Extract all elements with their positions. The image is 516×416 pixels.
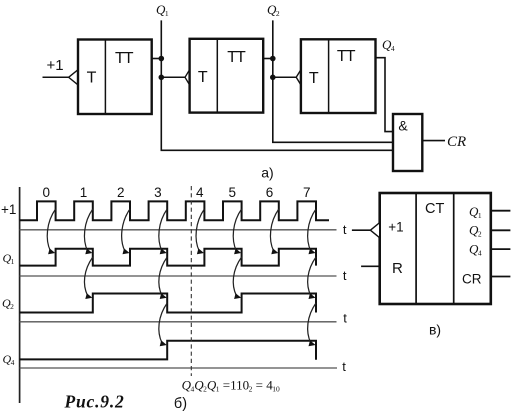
svg-text:в): в) xyxy=(429,321,441,337)
arrow clock pulse 5 falling edge to Q1 toggle xyxy=(233,209,241,254)
arrow clock pulse 0 falling edge to Q1 toggle xyxy=(47,209,55,254)
arrow Q2 falling edge to Q4 toggle at pulse 3 xyxy=(159,303,167,346)
T flip-flop FF1 divider xyxy=(104,40,106,115)
svg-text:t: t xyxy=(343,268,347,283)
svg-text:CR: CR xyxy=(447,134,466,150)
Q2 waveform xyxy=(20,294,316,313)
wire FF2 output to Q2 net xyxy=(263,58,273,60)
svg-text:+1: +1 xyxy=(46,57,63,74)
svg-text:TT: TT xyxy=(337,48,356,65)
FF3 dynamic input triangle xyxy=(296,70,301,85)
Q1 waveform xyxy=(20,249,316,266)
svg-text:t: t xyxy=(342,359,346,374)
arrow Q1 falling edge to Q2 toggle at pulse 5 xyxy=(233,257,241,299)
node Q2-FF3 input junction xyxy=(270,75,276,81)
svg-text:T: T xyxy=(87,69,97,86)
Q4 time axis xyxy=(20,367,337,369)
clock time axis xyxy=(20,229,337,231)
arrow Q1 falling edge to Q2 toggle at pulse 3 xyxy=(159,257,167,299)
svg-text:CR: CR xyxy=(462,272,482,287)
svg-text:1: 1 xyxy=(80,185,88,200)
dashed marker line at pulse 4 xyxy=(190,186,192,376)
wire CT +1 input xyxy=(352,229,371,231)
svg-text:0: 0 xyxy=(43,185,51,200)
wire CT output CR xyxy=(491,276,511,278)
T flip-flop FF3 box xyxy=(301,39,376,113)
svg-text:Q4Q2Q1 =1102 = 410: Q4Q2Q1 =1102 = 410 xyxy=(182,377,280,393)
svg-text:7: 7 xyxy=(303,185,311,200)
svg-text:Рис.9.2: Рис.9.2 xyxy=(64,392,125,412)
T flip-flop FF1 box xyxy=(78,40,152,115)
wire +1 input to FF1 xyxy=(43,76,69,78)
svg-text:CT: CT xyxy=(425,201,444,217)
T flip-flop FF3 divider xyxy=(328,39,330,113)
Q1 time axis xyxy=(20,275,337,277)
node Q1-FF2 input junction xyxy=(159,75,165,81)
T flip-flop FF2 box xyxy=(190,39,264,113)
svg-text:б): б) xyxy=(174,396,187,412)
timing vertical axis xyxy=(19,187,21,403)
wire FF3 output Q4 down to AND gate xyxy=(376,58,394,132)
wire CT output Q4 xyxy=(491,248,511,250)
wire CT output Q1 xyxy=(491,210,511,212)
node Q2-FF2 output junction xyxy=(270,56,276,62)
svg-text:T: T xyxy=(309,70,319,87)
svg-text:t: t xyxy=(343,311,347,326)
arrow clock pulse 2 falling edge to Q1 toggle xyxy=(122,209,130,254)
FF2 dynamic input triangle xyxy=(185,70,190,85)
CT divider right xyxy=(453,193,455,304)
Q4 waveform xyxy=(20,341,316,360)
wire Q1 net to FF2 input xyxy=(161,76,185,78)
arrow clock pulse 4 falling edge to Q1 toggle xyxy=(196,209,204,254)
clock +1 waveform xyxy=(20,201,329,220)
wire Q2 net vertical + horizontal run to AND gate xyxy=(273,20,394,142)
CT dynamic input triangle xyxy=(370,223,379,238)
wire Q1 net vertical + horizontal run to AND gate xyxy=(161,20,393,150)
Q2 time axis xyxy=(20,321,337,323)
svg-text:TT: TT xyxy=(227,49,246,66)
T flip-flop FF2 divider xyxy=(216,39,218,113)
wire FF1 output to Q1 net xyxy=(152,58,162,60)
arrow clock pulse 1 falling edge to Q1 toggle xyxy=(84,209,92,254)
svg-text:+1: +1 xyxy=(388,220,403,235)
arrow Q1 falling edge to Q2 toggle at pulse 7 xyxy=(308,257,316,299)
svg-text:3: 3 xyxy=(154,185,162,200)
CT divider left xyxy=(415,193,417,304)
CT counter box xyxy=(380,193,491,304)
svg-text:t: t xyxy=(343,222,347,237)
arrow Q1 falling edge to Q2 toggle at pulse 1 xyxy=(84,257,92,299)
svg-text:&: & xyxy=(398,117,408,133)
svg-text:TT: TT xyxy=(115,50,134,67)
wire CT R input xyxy=(361,265,380,267)
svg-text:R: R xyxy=(392,260,403,277)
pulse numbers 0-7 xyxy=(43,185,311,200)
svg-text:6: 6 xyxy=(266,185,274,200)
arrow clock pulse 6 falling edge to Q1 toggle xyxy=(270,209,278,254)
svg-text:2: 2 xyxy=(117,185,125,200)
svg-text:T: T xyxy=(198,69,208,86)
wire AND output to CR xyxy=(422,140,445,142)
FF1 dynamic input triangle xyxy=(69,70,78,85)
svg-text:а): а) xyxy=(261,164,273,180)
arrow Q2 falling edge to Q4 toggle at pulse 7 xyxy=(308,303,316,346)
svg-text:+1: +1 xyxy=(1,202,16,217)
arrow clock pulse 7 falling edge to Q1 toggle xyxy=(308,209,316,254)
node Q1-FF1 output junction xyxy=(159,56,165,62)
wire Q2 net to FF3 input xyxy=(273,76,296,78)
arrow clock pulse 3 falling edge to Q1 toggle xyxy=(159,209,167,254)
wire CT output Q2 xyxy=(491,229,511,231)
svg-text:5: 5 xyxy=(229,185,237,200)
AND gate U1 box xyxy=(393,114,422,171)
svg-text:4: 4 xyxy=(196,185,204,200)
